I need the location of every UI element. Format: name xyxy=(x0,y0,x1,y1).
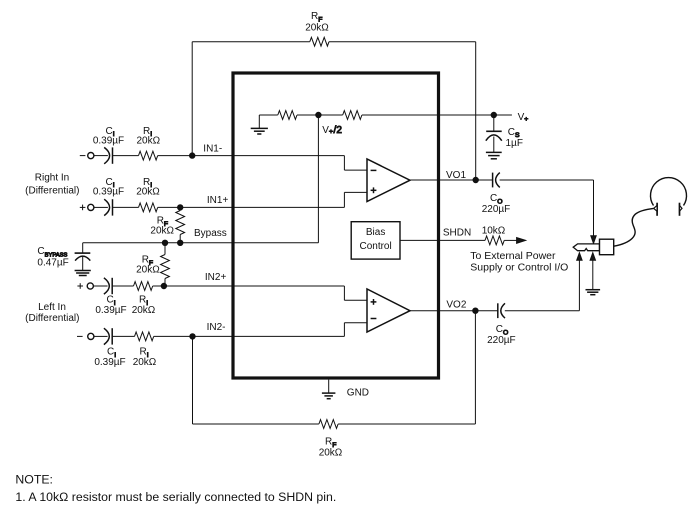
op-amp U1A xyxy=(367,159,410,202)
node bypass right xyxy=(178,240,183,245)
svg-text:IN2+: IN2+ xyxy=(205,272,227,283)
capacitor CS 1uF xyxy=(493,115,495,131)
resistor divider RB xyxy=(343,111,362,120)
svg-text:0.39µF: 0.39µF xyxy=(95,305,126,316)
node IN1+ xyxy=(178,205,183,210)
node V+/2 xyxy=(316,112,321,117)
node VO1 xyxy=(473,177,478,182)
ground GND of IC xyxy=(328,380,330,393)
capacitor CO1 220uF xyxy=(476,179,493,181)
headphone left earpiece xyxy=(656,203,658,216)
resistor RF1 vertical 20k (IN1+ to Bypass) xyxy=(179,207,181,210)
resistor RF top feedback 20k xyxy=(310,37,329,46)
resistor RI row1 20k xyxy=(139,151,158,160)
wire V+ rail inside IC xyxy=(259,114,278,116)
arrow VO1 into jack tip xyxy=(591,236,596,244)
svg-text:20kΩ: 20kΩ xyxy=(319,447,343,458)
capacitor CBYPASS 0.47uF xyxy=(82,243,84,253)
resistor RI row2 20k xyxy=(139,203,158,212)
svg-text:SHDN: SHDN xyxy=(443,227,471,238)
svg-text:Control: Control xyxy=(359,241,391,252)
svg-text:20kΩ: 20kΩ xyxy=(133,357,157,368)
input terminal row4 (Left In -) xyxy=(77,335,83,337)
capacitor CI row4 0.39uF xyxy=(94,335,108,337)
node IN2+ xyxy=(161,283,166,288)
svg-text:V+: V+ xyxy=(518,112,529,123)
wire VO2 to jack xyxy=(505,310,580,312)
svg-text:Right In: Right In xyxy=(35,172,69,183)
svg-text:0.39µF: 0.39µF xyxy=(94,357,125,368)
svg-text:VO1: VO1 xyxy=(446,170,466,181)
svg-text:1. A 10kΩ resistor must be ser: 1. A 10kΩ resistor must be serially conn… xyxy=(15,490,336,504)
wire VO2 output xyxy=(410,310,475,312)
capacitor CI row1 0.39uF xyxy=(94,155,108,157)
bias control block xyxy=(351,222,400,259)
node IN2- xyxy=(190,334,195,339)
svg-text:0.47µF: 0.47µF xyxy=(37,258,68,269)
wire V+/2 to bypass xyxy=(317,115,319,243)
svg-text:VO2: VO2 xyxy=(446,300,466,311)
input terminal row3 (Left In +) xyxy=(77,285,83,287)
wire row4 xyxy=(112,335,134,337)
arrow VO2 into jack ring xyxy=(577,253,582,261)
svg-text:Left In: Left In xyxy=(38,302,66,313)
headphone headband xyxy=(650,178,686,206)
resistor RF bottom feedback 20k xyxy=(319,420,338,429)
svg-text:10kΩ: 10kΩ xyxy=(482,226,506,237)
svg-text:RF: RF xyxy=(311,11,322,23)
svg-text:20kΩ: 20kΩ xyxy=(305,23,329,34)
arrow SHDN to external xyxy=(517,238,526,244)
svg-text:IN2-: IN2- xyxy=(207,322,226,333)
svg-text:Bias: Bias xyxy=(366,227,385,238)
svg-text:20kΩ: 20kΩ xyxy=(150,226,174,237)
capacitor CI row2 0.39uF xyxy=(94,206,108,208)
svg-text:(Differential): (Differential) xyxy=(25,313,79,324)
svg-text:220µF: 220µF xyxy=(487,335,516,346)
wire VO1 to jack xyxy=(500,179,594,181)
svg-text:Supply or Control I/O: Supply or Control I/O xyxy=(470,262,568,274)
resistor RI row3 20k xyxy=(134,282,153,291)
svg-text:20kΩ: 20kΩ xyxy=(136,186,160,197)
ground CS xyxy=(486,151,502,153)
capacitor CO2 220uF xyxy=(475,310,497,312)
svg-text:IN1+: IN1+ xyxy=(207,195,229,206)
headphone cable xyxy=(614,208,654,246)
wire row1 xyxy=(113,155,139,157)
resistor RI row4 20k xyxy=(135,332,154,341)
svg-text:(Differential): (Differential) xyxy=(25,185,79,196)
svg-text:0.39µF: 0.39µF xyxy=(93,186,124,197)
wire VO1 output xyxy=(410,179,476,181)
capacitor CI row3 0.39uF xyxy=(93,285,107,287)
op-amp U1B xyxy=(367,289,410,332)
wire row2 xyxy=(113,206,139,208)
ground internal divider xyxy=(258,115,260,128)
input terminal row2 (Right In +) xyxy=(80,206,86,208)
svg-text:To External Power: To External Power xyxy=(470,250,556,262)
node bypass left xyxy=(162,240,167,245)
wire row2 into IC to op-amp U1A non-inverting input xyxy=(158,206,345,208)
svg-text:0.39µF: 0.39µF xyxy=(93,135,124,146)
svg-text:20kΩ: 20kΩ xyxy=(136,265,160,276)
wire top feedback loop (IN1- node up, across, down to VO1) xyxy=(191,42,193,156)
node VO2 xyxy=(473,308,478,313)
arrow ground into jack sleeve xyxy=(590,253,595,261)
svg-text:20kΩ: 20kΩ xyxy=(136,135,160,146)
svg-text:IN1-: IN1- xyxy=(203,144,222,155)
ground jack sleeve xyxy=(592,260,594,290)
svg-text:NOTE:: NOTE: xyxy=(15,472,53,486)
headphone plug tip and barrel xyxy=(573,244,599,251)
headphone plug body xyxy=(600,239,614,255)
svg-text:Bypass: Bypass xyxy=(194,228,227,239)
IC package box U1 xyxy=(233,73,439,378)
wire bottom feedback loop (IN2- node down, across, up to VO2) xyxy=(192,336,194,424)
ground CBYPASS xyxy=(75,270,91,272)
svg-text:20kΩ: 20kΩ xyxy=(132,305,156,316)
input terminal row1 (Right In -) xyxy=(80,155,86,157)
resistor RSHDN 10k xyxy=(485,236,504,245)
resistor RF2 vertical 20k (Bypass to IN2+) xyxy=(164,243,166,255)
node V+ xyxy=(491,112,496,117)
wire row4 into IC to op-amp U1B inverting input xyxy=(154,335,345,337)
svg-text:GND: GND xyxy=(347,387,369,398)
headphone right earpiece xyxy=(679,203,681,216)
wire row3 into IC to op-amp U1B non-inverting input xyxy=(153,285,345,287)
node IN1- xyxy=(190,153,195,158)
svg-text:220µF: 220µF xyxy=(482,204,511,215)
resistor divider RA xyxy=(278,111,297,120)
svg-text:1µF: 1µF xyxy=(506,138,523,149)
wire Bypass line xyxy=(83,242,319,244)
wire SHDN xyxy=(400,239,485,241)
wire row3 xyxy=(112,285,133,287)
wire row1 into IC to op-amp U1A inverting input xyxy=(158,155,345,157)
svg-text:V+/2: V+/2 xyxy=(322,125,342,136)
